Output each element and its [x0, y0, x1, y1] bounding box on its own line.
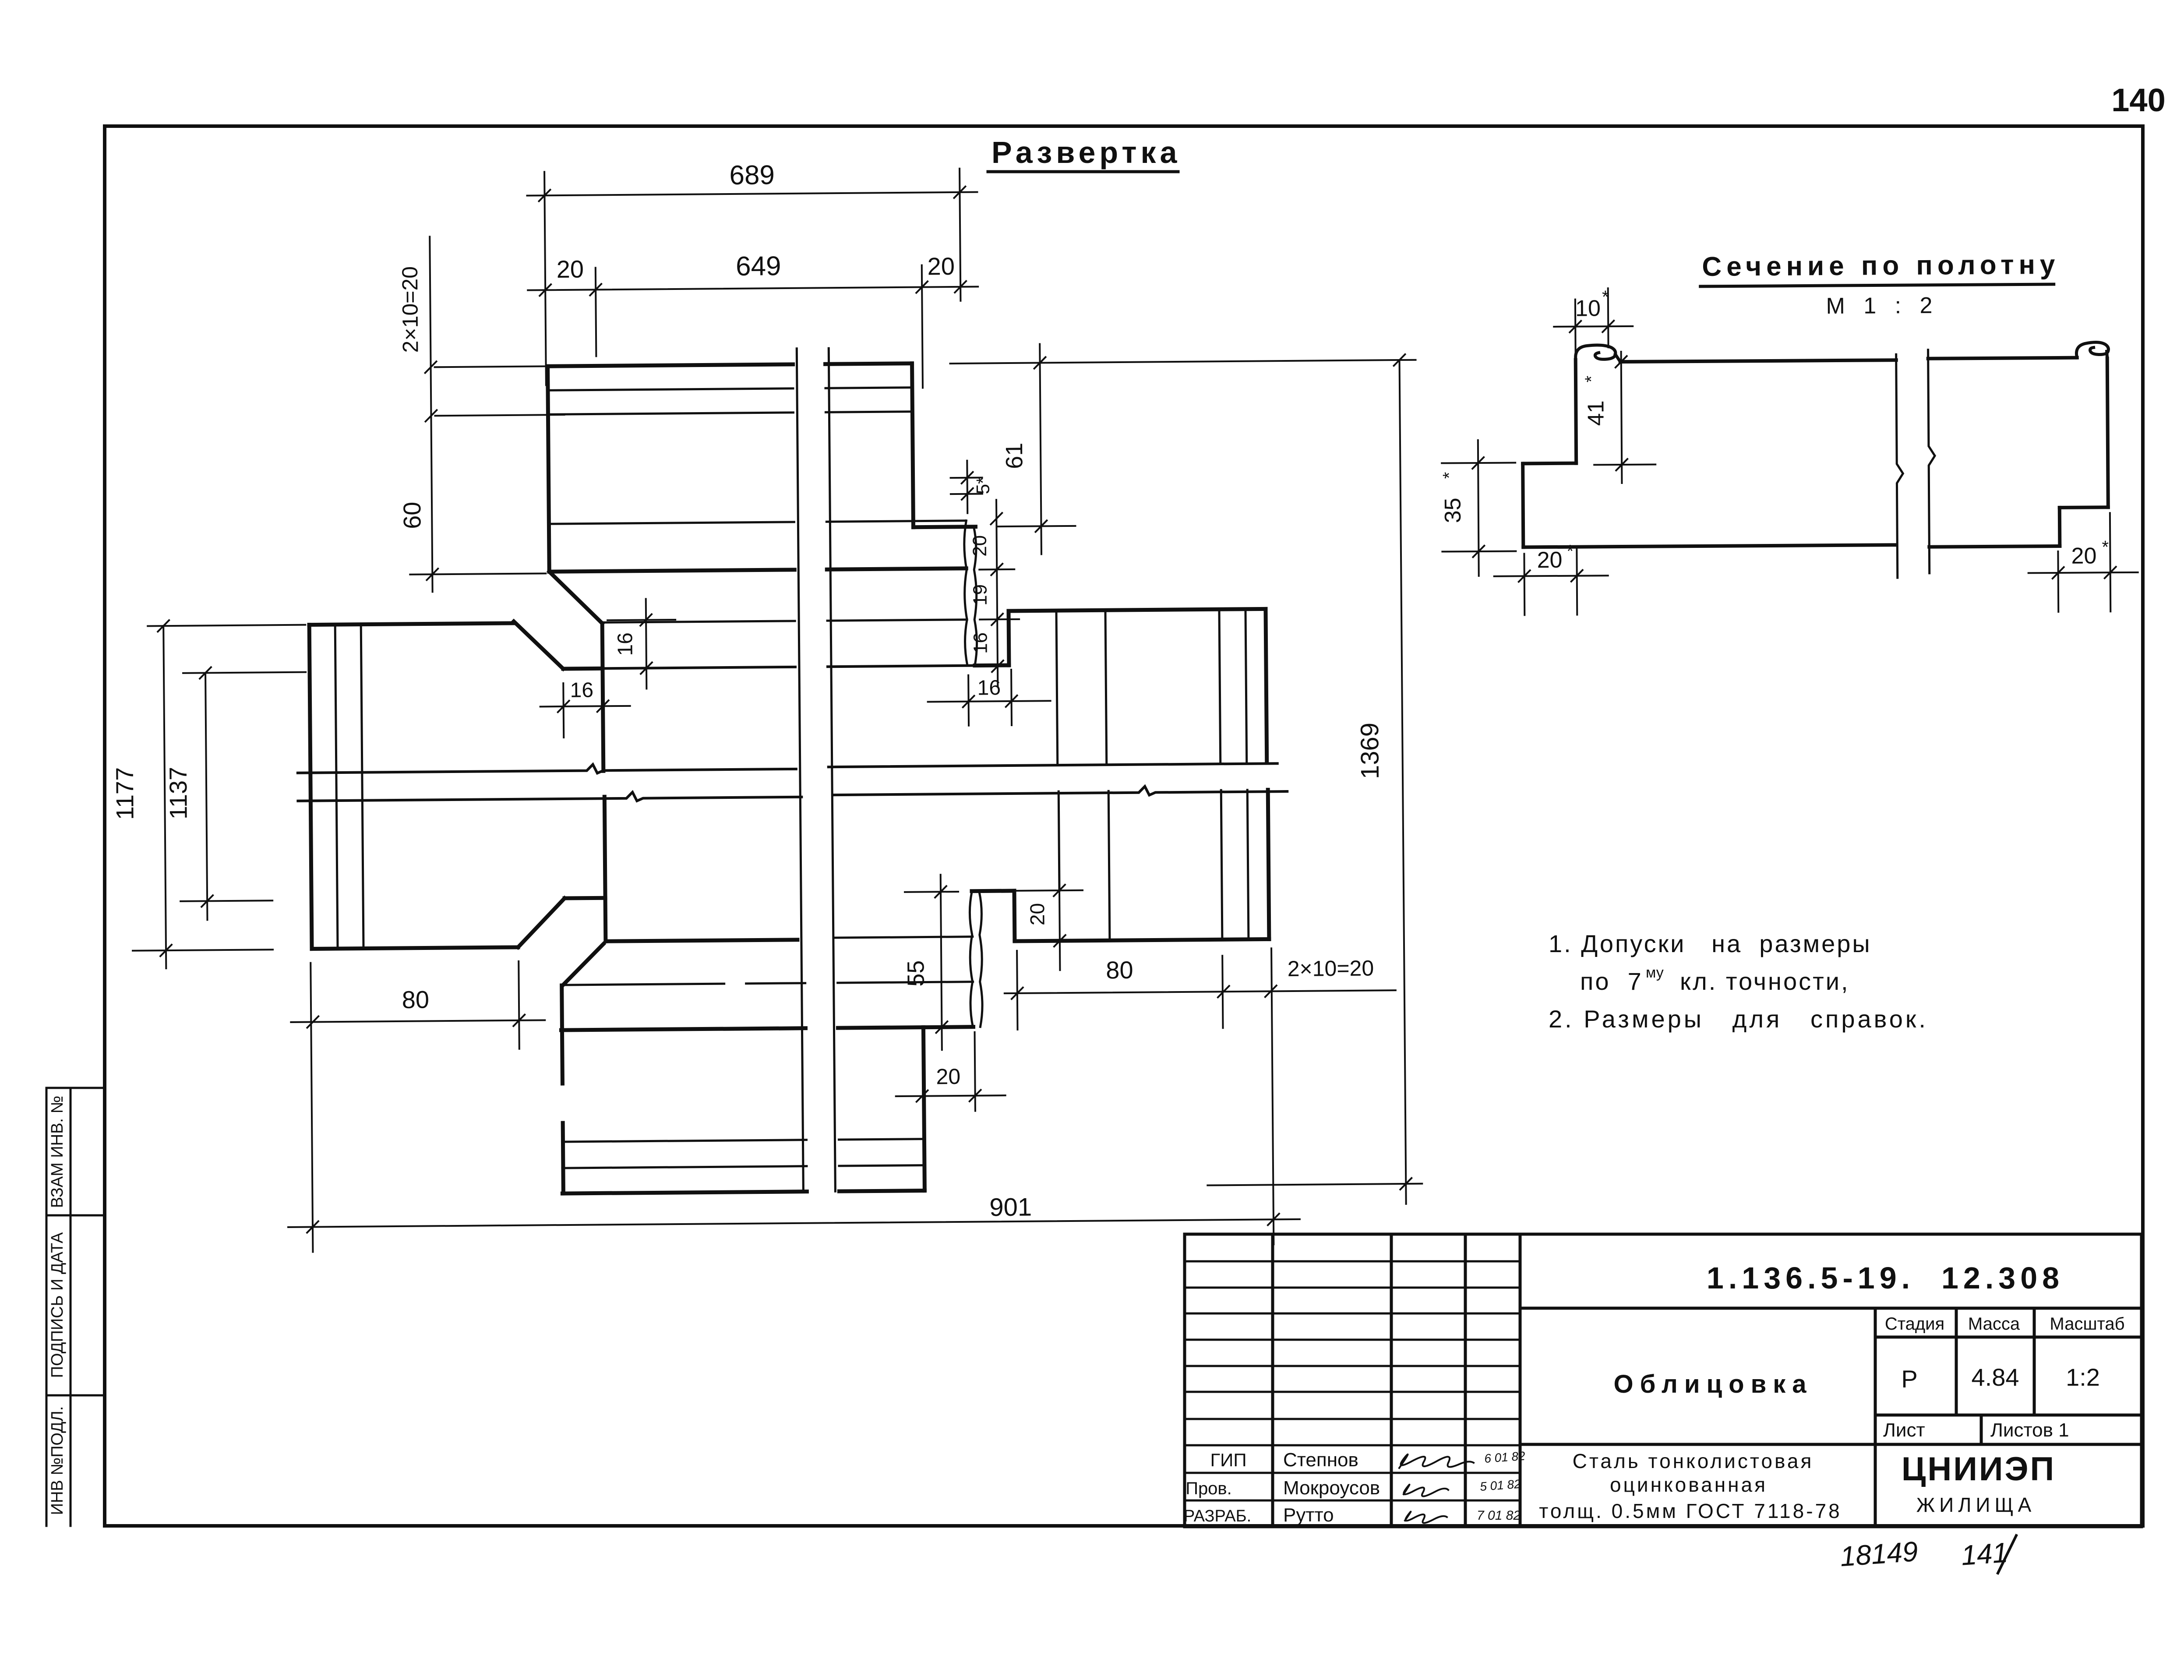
svg-text:ВЗАМ ИНВ. №: ВЗАМ ИНВ. №: [48, 1096, 67, 1208]
dim 649 + 20 + 20: [596, 268, 596, 356]
section break lines: [1896, 350, 1936, 578]
dim 20 step lower right: [1004, 890, 1083, 891]
svg-text:РАЗРАБ.: РАЗРАБ.: [1184, 1507, 1251, 1525]
dim 80 left: [519, 961, 519, 1049]
upper fold strip with relief bumps: [964, 521, 977, 666]
svg-text:16: 16: [977, 676, 1001, 699]
svg-text:2. Размеры для справок.: 2. Размеры для справок.: [1549, 1005, 1928, 1033]
svg-text:5 01 82: 5 01 82: [1479, 1477, 1521, 1493]
svg-text:901: 901: [989, 1193, 1032, 1222]
svg-text:Лист: Лист: [1883, 1419, 1925, 1441]
svg-text:*: *: [1440, 472, 1459, 479]
svg-text:Масштаб: Масштаб: [2050, 1314, 2124, 1334]
svg-text:*: *: [1602, 287, 1609, 307]
svg-text:Стадия: Стадия: [1885, 1314, 1944, 1334]
svg-text:16: 16: [570, 678, 593, 702]
svg-text:16: 16: [970, 632, 991, 654]
svg-text:ЖИЛИЩА: ЖИЛИЩА: [1916, 1493, 2036, 1516]
svg-text:1177: 1177: [111, 767, 139, 820]
41*: [1621, 352, 1622, 483]
dim 20 tail step: [975, 1032, 975, 1111]
svg-text:ИНВ №ПОДЛ.: ИНВ №ПОДЛ.: [48, 1406, 67, 1515]
svg-text:оцинкованная: оцинкованная: [1610, 1473, 1768, 1496]
vertical break lines: [797, 348, 835, 1192]
svg-text:ПОДПИСЬ И ДАТА: ПОДПИСЬ И ДАТА: [48, 1232, 67, 1378]
title block texts: [1184, 1261, 2125, 1526]
svg-text:1369: 1369: [1355, 723, 1384, 780]
svg-text:Пров.: Пров.: [1185, 1479, 1232, 1498]
upper flap bottom edge: [975, 664, 1009, 668]
svg-text:Листов 1: Листов 1: [1990, 1419, 2069, 1441]
svg-text:649: 649: [736, 251, 781, 282]
svg-text:Рутто: Рутто: [1283, 1504, 1334, 1526]
svg-text:61: 61: [1001, 443, 1027, 469]
svg-text:41: 41: [1583, 400, 1609, 426]
35*: [1442, 463, 1515, 463]
svg-text:по 7: по 7: [1580, 967, 1643, 995]
svg-text:80: 80: [1106, 956, 1133, 984]
svg-text:20: 20: [2071, 543, 2096, 568]
svg-text:20: 20: [1026, 903, 1048, 926]
20* right: [2057, 551, 2059, 612]
lower mid block: [561, 939, 974, 1193]
dim 1177: [163, 626, 166, 968]
svg-text:20: 20: [969, 535, 991, 557]
bottom tail block: [561, 1027, 924, 1193]
section dims: [1441, 285, 2138, 616]
svg-text:му: му: [1646, 964, 1664, 981]
10*: [1574, 300, 1577, 352]
svg-text:35: 35: [1440, 498, 1466, 523]
svg-text:Масса: Масса: [1968, 1314, 2020, 1334]
dim 16 under neck: [562, 683, 565, 738]
svg-text:толщ. 0.5мм ГОСТ 7118-78: толщ. 0.5мм ГОСТ 7118-78: [1539, 1500, 1842, 1522]
svg-text:2×10=20: 2×10=20: [1287, 956, 1374, 981]
svg-text:Степнов: Степнов: [1283, 1449, 1358, 1471]
chain 20/19/16 right side: [996, 500, 998, 686]
svg-text:80: 80: [402, 985, 430, 1013]
svg-text:19: 19: [970, 584, 991, 606]
svg-text:20: 20: [1537, 547, 1562, 573]
svg-text:55: 55: [903, 960, 929, 987]
svg-text:10: 10: [1575, 296, 1601, 321]
left margin stamp strip: [46, 1088, 105, 1526]
svg-text:140: 140: [2111, 82, 2165, 118]
svg-text:18149: 18149: [1839, 1535, 1919, 1572]
left block: [309, 622, 606, 949]
dim 1369: [1400, 360, 1406, 1204]
svg-text:ГИП: ГИП: [1210, 1450, 1246, 1470]
lower right block: [971, 790, 1269, 941]
svg-text:1.136.5-19. 12.308: 1.136.5-19. 12.308: [1707, 1261, 2064, 1295]
dim 80 + 2x10=20 right: [1017, 951, 1017, 1030]
svg-text:5*: 5*: [973, 476, 993, 494]
svg-text:1137: 1137: [164, 766, 192, 819]
svg-text:7 01 82: 7 01 82: [1477, 1508, 1521, 1523]
svg-text:*: *: [1582, 376, 1601, 383]
dim 55: [905, 891, 958, 893]
svg-text:16: 16: [614, 632, 637, 656]
svg-text:20: 20: [936, 1064, 960, 1089]
svg-text:Мокроусов: Мокроусов: [1283, 1477, 1380, 1499]
top extension line + dim 61: [950, 360, 1416, 364]
svg-text:4.84: 4.84: [1972, 1363, 2019, 1391]
svg-text:Р: Р: [1901, 1365, 1917, 1393]
signatures (squiggles): [1399, 1454, 1474, 1523]
svg-text:М 1 : 2: М 1 : 2: [1826, 293, 1938, 319]
svg-text:Развертка: Развертка: [991, 135, 1181, 169]
svg-text:689: 689: [729, 160, 775, 191]
dim 16 bottom step of flap: [967, 675, 970, 726]
svg-text:Сталь тонколистовая: Сталь тонколистовая: [1573, 1450, 1814, 1472]
profile left part: [1522, 343, 1898, 547]
profile right part: [1928, 342, 2110, 547]
svg-text:ЦНИИЭП: ЦНИИЭП: [1902, 1451, 2056, 1488]
dimension texts of development: [106, 155, 1388, 1228]
svg-text:6 01 82: 6 01 82: [1484, 1449, 1526, 1465]
dim 16 vertical right of left block: [607, 620, 675, 620]
border frame: [105, 126, 2143, 1526]
handwritten numbers below title block: [1839, 1535, 2009, 1572]
svg-text:1:2: 1:2: [2066, 1363, 2100, 1391]
svg-text:Сечение по полотну: Сечение по полотну: [1702, 250, 2060, 282]
svg-text:20: 20: [927, 252, 955, 280]
svg-text:*: *: [2102, 537, 2109, 557]
vertical dim 2x10=20 / 60 at left: [430, 236, 432, 592]
top block outline: [512, 363, 977, 772]
development view (slightly skewed like the scan): [106, 155, 1422, 1253]
dim 901: [310, 963, 313, 1252]
dim 1137: [205, 673, 207, 920]
svg-text:кл. точности,: кл. точности,: [1680, 967, 1850, 995]
svg-text:1. Допуски на размеры: 1. Допуски на размеры: [1549, 930, 1872, 957]
svg-text:*: *: [1567, 542, 1574, 561]
slash stroke through handwritten number: [1998, 1535, 2016, 1573]
dim 5* small: [951, 477, 982, 479]
svg-text:60: 60: [398, 501, 426, 529]
svg-text:2×10=20: 2×10=20: [398, 266, 423, 353]
svg-text:20: 20: [556, 255, 584, 283]
top block fold lines: [548, 387, 967, 623]
dim 689: [544, 172, 546, 385]
svg-text:Облицовка: Облицовка: [1613, 1370, 1813, 1398]
break band lines: [298, 759, 1288, 804]
lower fold strip with bumps: [970, 892, 982, 1027]
upper right block: [1009, 609, 1267, 764]
20* left: [1523, 554, 1525, 615]
